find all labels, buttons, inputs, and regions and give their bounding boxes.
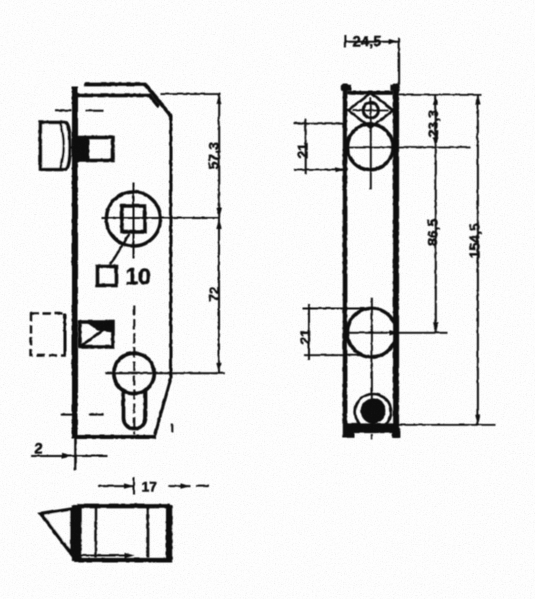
dimension 17 left line (98, 485, 134, 487)
dimension 17 right arrow (180, 483, 190, 488)
dimension 21 upper arrow at plate (335, 167, 345, 172)
dimension 21 upper line (304, 119, 306, 175)
dimension 21 upper extension lines (294, 123, 348, 169)
dimension 57,3 line (218, 94, 220, 218)
dimension 2 arrow (62, 453, 72, 458)
bottom view latch wedge (41, 509, 72, 555)
dimension 23,3 arrows (433, 94, 438, 104)
dimension 86,5 line (434, 147, 436, 332)
front view top-left ear (341, 84, 351, 90)
left view: bottom edge (76, 435, 156, 439)
dimension 2 line (31, 455, 107, 457)
dimension 23,3 line (434, 94, 436, 147)
keyhole vertical centerline (133, 305, 135, 434)
dimension 57,3 arrows (216, 94, 221, 104)
dimension 17 tick (133, 477, 135, 495)
dimension 24,5 arrow (389, 39, 399, 44)
left view: lock case inner top line (78, 95, 159, 107)
bottom view inner arrow (80, 554, 129, 556)
left view: lock case outer top outline (84, 84, 171, 116)
dimension 24,5 left tick (344, 35, 346, 48)
front view bottom-right foot (392, 427, 400, 437)
spindle horizontal centerline (101, 217, 220, 219)
deadbolt front face (63, 313, 66, 355)
bottom view inner line 1 (94, 507, 96, 557)
cylinder hole circle (347, 308, 396, 357)
latch tail dark head (79, 137, 89, 160)
keyhole horizontal centerline (105, 372, 224, 374)
front view bottom band (346, 423, 398, 433)
top screw countersink diamond (348, 93, 393, 128)
latch bolt inner bevel arc (60, 124, 63, 168)
latch hub horizontal centerline (347, 146, 470, 148)
dimension 17 right line (168, 485, 190, 487)
bottom screw vertical centerline (370, 394, 372, 440)
right edge lower dash (171, 423, 173, 432)
dimension 17 left arrow (124, 483, 134, 488)
front view top edge (347, 91, 393, 95)
dimension 24,5 extension (398, 38, 400, 85)
left view: bottom-right chamfer (155, 378, 171, 435)
top screw centerlines (352, 97, 389, 123)
deadbolt tail filled notch (86, 322, 112, 332)
bottom screw filled circle (360, 398, 385, 423)
leader line to square size (110, 234, 129, 265)
dimension 17 trailing dash (196, 485, 209, 487)
dimension 72 line (218, 219, 220, 373)
cylinder keyhole stem (123, 390, 145, 429)
spindle vertical centerline (132, 182, 134, 258)
deadbolt tail diagonal (81, 324, 111, 346)
dimension 154,5 arrows (475, 94, 480, 104)
bottom view inner line 2 (146, 507, 149, 557)
top screw hole (363, 102, 378, 117)
dimension 154,5 line (476, 94, 478, 424)
dimension 86,5 arrow (433, 322, 438, 332)
dimension 21 lower line (308, 304, 310, 360)
spindle follower circle (106, 192, 160, 246)
right bottom extension line (398, 423, 495, 425)
front view bottom-left foot (344, 427, 354, 437)
cylinder vertical centerline (370, 298, 372, 396)
faceplate band (left view) (72, 86, 78, 438)
bottom view bottom edge (74, 557, 172, 562)
small square symbol (97, 266, 116, 285)
bottom view right edge (166, 505, 173, 559)
left view: lock case right edge (169, 113, 172, 378)
cylinder centerline arrow at plate edge (389, 330, 399, 335)
dimension 24,5 line (344, 40, 399, 42)
latch hub circle (347, 124, 393, 170)
latch bolt (side view) (40, 122, 70, 169)
right top extension line (399, 93, 481, 95)
front view faceplate left edge (342, 84, 347, 438)
top screw centerline dashes (55, 109, 103, 111)
faceplate extension line below (74, 438, 77, 470)
cylinder horizontal centerline (348, 331, 448, 333)
bottom screw ring (355, 394, 391, 430)
front view top-right ear (390, 84, 399, 90)
deadbolt thrown (dashed) (31, 313, 65, 355)
latch hub vertical centerline (369, 125, 371, 190)
dimension 21 lower extension lines (303, 308, 369, 355)
dimension 57,3 extension line (160, 93, 221, 95)
front view faceplate right edge (393, 84, 399, 438)
spindle square hole (122, 206, 145, 232)
cylinder keyhole circle (113, 353, 153, 393)
dimension 72 arrows (216, 219, 221, 229)
latch tail guide (79, 137, 113, 160)
bottom view faceplate band (71, 505, 81, 561)
bottom view top edge (77, 504, 170, 508)
deadbolt tail box (80, 322, 113, 347)
bottom screw centerline dashes (60, 413, 103, 415)
